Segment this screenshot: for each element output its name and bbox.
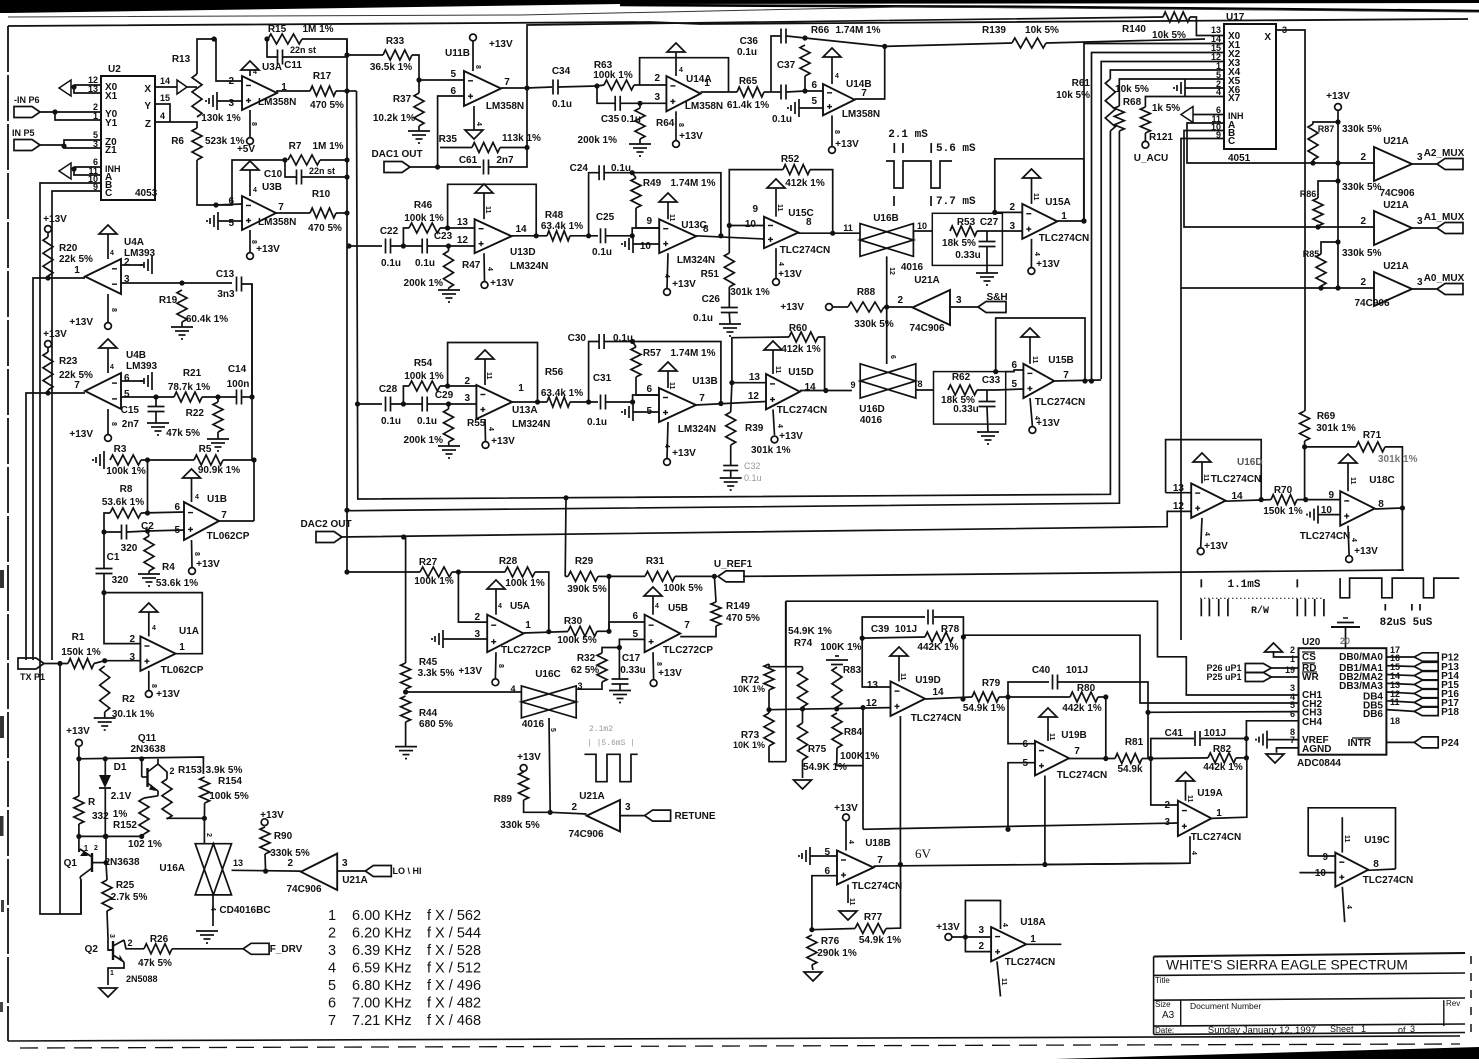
wire U18A in: [952, 936, 991, 938]
svg-text:7: 7: [504, 77, 510, 88]
+13V U18A: [936, 922, 960, 940]
svg-text:U4A: U4A: [124, 237, 144, 248]
resistor R83: [832, 667, 842, 707]
wire U3B pin5: [218, 220, 242, 222]
junction: [993, 369, 998, 374]
svg-text:R2: R2: [122, 694, 135, 705]
svg-text:6: 6: [1022, 739, 1028, 750]
wire to U16A: [204, 818, 212, 843]
svg-text:R25: R25: [116, 880, 135, 891]
svg-text:R85: R85: [1303, 249, 1320, 259]
svg-text:R75: R75: [808, 744, 827, 755]
wire R139 right: [1046, 39, 1205, 43]
wire C11 right: [283, 56, 347, 58]
junction: [445, 225, 450, 230]
+13V under U15B: [1029, 416, 1060, 433]
svg-text:11: 11: [484, 206, 491, 214]
ground (bars small) R83: [826, 656, 848, 665]
svg-text:100k 1%: 100k 1%: [404, 213, 444, 224]
wire R86 bottom: [1317, 226, 1319, 227]
wire U19B pin5: [1008, 763, 1035, 830]
wire Q2 base: [108, 938, 113, 950]
wire R22 top: [217, 397, 219, 402]
op-amp U14A: [654, 73, 723, 112]
svg-text:1: 1: [1030, 934, 1036, 945]
svg-text:47k 5%: 47k 5%: [138, 958, 172, 969]
wire U1A pin3: [105, 660, 141, 662]
svg-text:+13V: +13V: [66, 726, 90, 737]
svg-text:R51: R51: [701, 269, 720, 280]
svg-text:2.7k 5%: 2.7k 5%: [111, 892, 148, 903]
wire C37 left: [778, 91, 781, 93]
svg-text:47k 5%: 47k 5%: [166, 428, 200, 439]
wire R25 top: [106, 863, 107, 880]
svg-text:LM393: LM393: [126, 361, 158, 372]
wire Z0: [64, 140, 101, 146]
svg-text:0.33u: 0.33u: [955, 250, 981, 261]
wire U19C 11: [1342, 817, 1350, 852]
junction: [1318, 285, 1323, 290]
svg-text:U15D: U15D: [788, 367, 814, 378]
junction: [251, 457, 256, 462]
+13V under U15C: [773, 262, 803, 285]
wire U13A out: [512, 401, 547, 403]
svg-text:+13V: +13V: [1204, 541, 1228, 552]
svg-text:101J: 101J: [1066, 665, 1088, 676]
wire U15B fb box: [996, 318, 1085, 381]
svg-text:2: 2: [287, 858, 293, 869]
wire DAC1: [410, 166, 438, 168]
svg-text:U16A: U16A: [159, 863, 185, 874]
wire B bus: [1184, 131, 1374, 228]
svg-text:U5B: U5B: [668, 603, 688, 614]
svg-text:5: 5: [1011, 379, 1017, 390]
wire C35 right: [620, 102, 666, 104]
svg-text:82uS 5uS: 82uS 5uS: [1380, 617, 1433, 629]
+13V Q area: [66, 726, 90, 746]
ground (bars) at U3B pin5: [207, 212, 218, 230]
title small labels: [1155, 976, 1460, 1036]
wire U1A supply: [148, 671, 150, 690]
op-amp U19C: [1315, 835, 1413, 887]
svg-text:R39: R39: [745, 423, 764, 434]
svg-text:X: X: [144, 84, 151, 95]
junction: [344, 569, 349, 574]
svg-text:2: 2: [205, 833, 212, 837]
svg-text:TLC274CN: TLC274CN: [780, 245, 831, 256]
svg-text:R: R: [88, 797, 96, 808]
junction: [344, 157, 349, 162]
svg-text:100K: 100K: [840, 751, 865, 762]
svg-text:11: 11: [668, 214, 675, 222]
resistor R87: [1308, 124, 1382, 160]
wire U18A pin2: [965, 937, 991, 952]
wire C14 right: [242, 396, 252, 398]
power arrow U13C: [659, 193, 677, 222]
resistor R82: [1203, 744, 1243, 773]
svg-text:C27: C27: [980, 217, 999, 228]
wire C41-R82 join: [1245, 739, 1247, 758]
svg-text:f X / 482: f X / 482: [427, 996, 481, 1012]
wire R17 node branch: [347, 90, 357, 92]
terminal U_ACU: [1134, 141, 1168, 164]
wire C34 left: [527, 87, 552, 88]
title block frame: [1154, 953, 1465, 1034]
op-amp U5A: [474, 601, 551, 656]
resistor R75: [798, 723, 827, 760]
terminal P26 uP1: [1206, 663, 1271, 673]
junction: [213, 202, 218, 207]
wire U18C out down: [1402, 508, 1403, 570]
wire R71 right: [1385, 447, 1402, 508]
svg-text:LM393: LM393: [124, 248, 156, 259]
svg-text:3: 3: [654, 92, 660, 103]
svg-text:102 1%: 102 1%: [128, 839, 162, 850]
resistor R68: [1114, 103, 1180, 131]
wire R top: [78, 759, 80, 796]
waveform pulse train: [886, 161, 952, 188]
ground R37: [408, 126, 430, 143]
svg-text:TLC272CP: TLC272CP: [663, 645, 713, 656]
wire to U3A pin2: [214, 39, 242, 81]
wire U16D out: [916, 389, 934, 391]
svg-text:+13V: +13V: [43, 329, 67, 340]
terminal -IN P6: [14, 95, 40, 118]
resistor R78: [917, 624, 959, 653]
+13V under U16Dop: [1197, 532, 1228, 555]
wire R25 bottom: [107, 911, 108, 938]
svg-text:1: 1: [84, 844, 89, 853]
svg-text:100k 1%: 100k 1%: [593, 70, 633, 81]
wire R46 left: [403, 228, 409, 246]
svg-text:6: 6: [124, 373, 130, 384]
junction: [103, 860, 108, 865]
svg-text:U15B: U15B: [1048, 355, 1074, 366]
junction: [963, 934, 968, 939]
svg-text:1.74M 1%: 1.74M 1%: [670, 178, 715, 189]
wire R52 right: [810, 170, 833, 234]
wire C33-R62 to pin5: [996, 389, 1023, 390]
wire CH4 up: [1246, 721, 1298, 739]
power arrow U19D: [890, 647, 908, 681]
capacitor C40: [1032, 665, 1088, 690]
op-amp U21A buffer A0: [1354, 261, 1423, 309]
svg-text:TLC274CN: TLC274CN: [1363, 875, 1414, 886]
svg-text:C31: C31: [593, 373, 612, 384]
svg-text:Q1: Q1: [64, 858, 78, 869]
wire Q11 emitter: [157, 759, 159, 764]
wire R87 top: [1313, 122, 1338, 124]
wire U13D supply: [483, 253, 486, 281]
wire X1: [74, 87, 101, 93]
wire U15C pin9: [729, 225, 764, 227]
wire INH: [1193, 114, 1224, 116]
svg-text:1: 1: [518, 383, 524, 394]
svg-text:200k 1%: 200k 1%: [578, 135, 618, 146]
svg-text:+13V: +13V: [490, 278, 514, 289]
svg-text:9: 9: [850, 380, 855, 390]
wire R15 right: [302, 39, 347, 55]
wire U19D out: [925, 697, 972, 699]
junction: [961, 634, 966, 639]
junction: [401, 243, 406, 248]
svg-text:6: 6: [1011, 360, 1017, 371]
svg-text:DAC1 OUT: DAC1 OUT: [371, 149, 422, 160]
wire DAC1 to C61: [438, 166, 481, 168]
svg-text:100k 1%: 100k 1%: [505, 578, 545, 589]
wire AGND: [1277, 748, 1299, 753]
junction: [834, 706, 839, 711]
wire R23 top: [47, 347, 49, 352]
wire C2 to pin5: [148, 530, 185, 531]
wire U18C pin10: [1318, 514, 1340, 516]
junction: [898, 862, 903, 867]
svg-text:9: 9: [1322, 852, 1328, 863]
svg-text:R81: R81: [1125, 737, 1144, 748]
+13V under U15D: [771, 424, 803, 443]
wire R44 bottom: [405, 722, 407, 746]
svg-text:R74: R74: [794, 638, 813, 649]
svg-text:54.9k 1%: 54.9k 1%: [859, 935, 901, 946]
svg-text:R20: R20: [59, 243, 78, 254]
resistor R86: [1300, 182, 1382, 226]
wire X output: [1276, 30, 1305, 411]
svg-text:4: 4: [195, 494, 199, 501]
junction: [606, 574, 611, 579]
svg-text:TL062CP: TL062CP: [161, 665, 204, 676]
svg-text:| |5.6mS |: | |5.6mS |: [587, 739, 635, 748]
resistor R22: [166, 402, 223, 439]
svg-text:12: 12: [457, 235, 469, 246]
resistor R47: [404, 251, 481, 289]
svg-text:R153: R153: [178, 765, 202, 776]
junction: [355, 401, 360, 406]
wire C24 left: [589, 173, 599, 236]
+13V under U13C: [663, 274, 696, 295]
svg-text:C34: C34: [552, 66, 571, 77]
bus to CH3: [1148, 711, 1299, 714]
wire U5A pin3: [443, 638, 487, 640]
svg-text:11: 11: [899, 673, 906, 681]
svg-text:+13V: +13V: [260, 810, 284, 821]
power arrow U15A: [1023, 169, 1041, 204]
op-amp U13C: [640, 216, 715, 266]
svg-text:U_ACU: U_ACU: [1134, 153, 1168, 164]
svg-text:5: 5: [124, 389, 130, 400]
wire C bus down: [1180, 288, 1182, 640]
svg-text:442K 1%: 442K 1%: [917, 642, 958, 653]
svg-text:R/W: R/W: [1251, 605, 1269, 617]
wire R60 right: [818, 337, 825, 391]
svg-text:8: 8: [497, 664, 504, 668]
wire U15D pin13: [732, 382, 766, 384]
wire R51 top: [728, 226, 730, 254]
junction: [960, 696, 965, 701]
capacitor C30: [568, 333, 633, 349]
wire R35 right: [500, 147, 527, 149]
capacitor C1: [96, 552, 129, 586]
svg-text:5: 5: [228, 218, 234, 229]
svg-text:R149: R149: [726, 601, 750, 612]
svg-text:10k 5%: 10k 5%: [1152, 30, 1186, 41]
+13V supply R20: [43, 214, 67, 232]
junction: [1103, 694, 1108, 699]
wire R77 right: [886, 865, 901, 929]
svg-text:R83: R83: [843, 665, 862, 676]
svg-text:3: 3: [464, 393, 470, 404]
power arrow U4A: [99, 225, 117, 259]
svg-text:412k 1%: 412k 1%: [781, 344, 821, 355]
svg-text:0.33u: 0.33u: [953, 404, 979, 415]
wire base node: [104, 835, 107, 837]
svg-text:330k 5%: 330k 5%: [1342, 182, 1382, 193]
svg-text:290k 1%: 290k 1%: [817, 948, 857, 959]
resistor R13: [172, 54, 202, 117]
wire U3B out: [276, 212, 310, 214]
junction: [630, 170, 635, 175]
wire P25: [1271, 676, 1298, 678]
wire gnd to U20: [1340, 627, 1350, 648]
wire U19B out: [1069, 758, 1115, 760]
svg-text:1: 1: [74, 265, 80, 276]
wire U13B out: [696, 402, 766, 406]
resistor R60: [789, 323, 818, 342]
svg-text:4: 4: [487, 427, 494, 431]
junction: [1148, 756, 1153, 761]
capacitor C17: [612, 653, 646, 684]
svg-text:8: 8: [677, 123, 684, 127]
svg-text:TLC274CN: TLC274CN: [1300, 531, 1351, 542]
svg-text:+13V: +13V: [672, 448, 696, 459]
svg-text:3: 3: [956, 295, 962, 306]
ground C27: [976, 247, 998, 285]
svg-text:R154: R154: [218, 776, 242, 787]
svg-text:100k 1%: 100k 1%: [404, 371, 444, 382]
power dn Q2: [99, 988, 117, 997]
svg-text:11: 11: [1343, 835, 1350, 843]
svg-text:R60: R60: [789, 323, 808, 334]
svg-text:3.3k 5%: 3.3k 5%: [418, 668, 455, 679]
svg-text:R28: R28: [499, 556, 518, 567]
wire X3 bus: [1101, 62, 1224, 380]
svg-text:2: 2: [1009, 202, 1015, 213]
junction: [401, 401, 406, 406]
svg-text:+13V: +13V: [517, 752, 541, 763]
resistor R79: [963, 678, 1005, 714]
op-amp U21A buffer A1: [1360, 200, 1423, 245]
wire C13 right: [242, 284, 252, 397]
svg-text:LM358N: LM358N: [685, 101, 723, 112]
resistor R32: [571, 653, 607, 682]
resistor R52: [781, 154, 810, 175]
svg-text:Rev: Rev: [1446, 999, 1460, 1008]
svg-text:3: 3: [1009, 221, 1015, 232]
svg-text:2: 2: [127, 938, 132, 948]
wire U13C supply: [667, 253, 668, 288]
wire R23 bottom: [48, 390, 85, 393]
svg-text:2: 2: [1164, 800, 1170, 811]
svg-text:6: 6: [646, 384, 652, 395]
svg-text:CS: CS: [1302, 652, 1316, 663]
svg-text:6.59 KHz: 6.59 KHz: [352, 961, 412, 977]
bottom bus 829: [863, 823, 1178, 829]
svg-text:U19B: U19B: [1061, 730, 1087, 741]
terminal A1_MUX: [1424, 212, 1465, 234]
junction: [727, 223, 732, 228]
svg-text:1: 1: [328, 908, 336, 924]
junction: [344, 210, 349, 215]
resistor R153: [162, 765, 202, 819]
svg-text:301k 1%: 301k 1%: [1378, 454, 1418, 465]
junction: [630, 233, 635, 238]
+13V under U1A: [145, 684, 180, 700]
wire U4A pin3: [121, 282, 232, 284]
svg-text:C28: C28: [379, 384, 398, 395]
capacitor C31: [587, 373, 612, 428]
svg-text:A2_MUX: A2_MUX: [1424, 148, 1465, 159]
wire retune out: [620, 815, 645, 817]
capacitor C36: [737, 29, 786, 59]
svg-text:R35: R35: [439, 134, 458, 145]
capacitor C29: [417, 390, 454, 427]
top scan edge line: [8, 7, 1479, 17]
wire C36 left: [771, 36, 781, 92]
ground (bars) at X6: [1174, 79, 1185, 97]
power dn arrow U11B: [465, 106, 483, 139]
svg-text:R152: R152: [113, 820, 137, 831]
svg-text:150k 1%: 150k 1%: [1263, 506, 1303, 517]
op-amp U15C: [745, 204, 830, 256]
wire R30 right: [597, 630, 609, 632]
power arrow U1B: [183, 469, 201, 502]
power arrow U15C: [767, 179, 785, 217]
svg-text:U15A: U15A: [1045, 197, 1071, 208]
wire R29 right: [598, 575, 609, 577]
svg-text:R70: R70: [1274, 485, 1293, 496]
resistor R149: [711, 601, 760, 626]
junction: [202, 816, 207, 821]
svg-text:U13B: U13B: [692, 376, 718, 387]
svg-text:R5: R5: [199, 444, 212, 455]
op-amp U15B: [1011, 355, 1085, 408]
svg-text:6: 6: [328, 996, 336, 1012]
svg-text:R89: R89: [494, 794, 513, 805]
resistor R10: [308, 189, 342, 234]
U19C fb box: [1308, 808, 1395, 869]
wire Q2 emitter: [124, 940, 144, 949]
wire U15D supply: [773, 409, 775, 435]
ground (bars) U13C pin10: [622, 235, 633, 253]
resistor R72: [733, 664, 774, 694]
svg-text:R3: R3: [114, 444, 127, 455]
svg-text:R86: R86: [1300, 189, 1317, 199]
svg-text:TLC274CN: TLC274CN: [1211, 474, 1262, 485]
svg-text:R4: R4: [162, 562, 175, 573]
svg-text:10.2k 1%: 10.2k 1%: [373, 113, 415, 124]
svg-text:1: 1: [110, 970, 114, 977]
svg-text:R87: R87: [1318, 124, 1335, 134]
resistor R6: [171, 128, 244, 160]
wire U18A out: [1026, 943, 1061, 945]
wire rail top: [78, 746, 80, 759]
capacitor C32: [723, 461, 761, 483]
svg-text:Sunday January 12, 1997: Sunday January 12, 1997: [1208, 1025, 1316, 1036]
svg-text:R57: R57: [643, 348, 662, 359]
svg-text:TLC274CN: TLC274CN: [777, 405, 828, 416]
junction: [860, 705, 865, 710]
svg-text:C: C: [1228, 136, 1235, 147]
svg-text:+13V: +13V: [256, 244, 280, 255]
